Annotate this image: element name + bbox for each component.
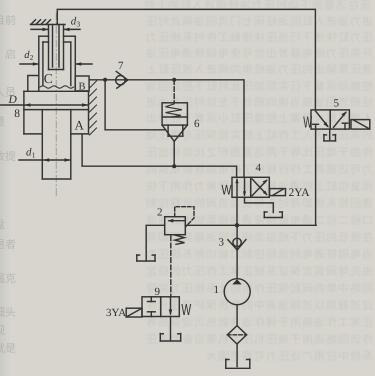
- fixed support hatching: [31, 20, 66, 25]
- svg-text:6: 6: [194, 118, 200, 130]
- remote control dashed line valve 2 to valve 9: [170, 236, 172, 297]
- tank symbol of valve 2: [137, 255, 155, 261]
- svg-text:3YA: 3YA: [106, 307, 126, 319]
- svg-text:C: C: [44, 71, 53, 86]
- svg-text:8: 8: [14, 108, 20, 120]
- svg-text:进力油进人缸回油经阀七门流回油箱此时压: 进力油进人缸回油经阀七门流回油箱此时压: [145, 15, 373, 28]
- tank symbol below filter: [226, 359, 250, 368]
- svg-text:D: D: [8, 94, 18, 106]
- pump 1: [224, 279, 250, 305]
- piston 8 line: [24, 109, 89, 111]
- svg-text:1: 1: [214, 284, 220, 296]
- faint show-through text background: [143, 0, 373, 363]
- main cylinder body: [24, 91, 89, 134]
- svg-text:温克: 温克: [0, 272, 16, 285]
- svg-text:2: 2: [157, 207, 163, 219]
- svg-text:由先导阀调定保证系统正常工作压力的稳定: 由先导阀调定保证系统正常工作压力的稳定: [145, 265, 373, 278]
- svg-text:W: W: [222, 182, 233, 198]
- svg-text:压在活塞面下动时压力油经阀进入缸的上腔: 压在活塞面下动时压力油经阀进入缸的上腔: [143, 0, 371, 12]
- wire branch down to valve 6 inlet: [105, 80, 165, 130]
- D dimension arrow: [0, 103, 88, 107]
- svg-text:量: 量: [0, 116, 5, 128]
- svg-text:液压泵输出的压力油经单向阀进入液压缸上: 液压泵输出的压力油经单向阀进入液压缸上: [145, 63, 373, 76]
- cup piston C inner walls: [43, 42, 71, 86]
- oil wavy line in cup: [40, 86, 74, 88]
- wire B-line from chamber B to valve 4: [89, 80, 244, 178]
- wire A-line from chamber A to valve 4: [82, 134, 237, 177]
- d3 dimension arrows: [31, 28, 80, 32]
- solenoid 3YA of valve 9: [126, 308, 142, 317]
- svg-text:当电磁铁通电时远程控制口被切断系统压力: 当电磁铁通电时远程控制口被切断系统压力: [145, 248, 373, 261]
- svg-text:盘: 盘: [0, 218, 5, 231]
- svg-text:作由于增压比等于两活塞面积之比故输出压: 作由于增压比等于两活塞面积之比故输出压: [145, 146, 373, 159]
- svg-text:回路中单向阀起保压作用防止系统压力突降: 回路中单向阀起保压作用防止系统压力突降: [145, 282, 373, 295]
- node junction A-line / valve 6: [172, 164, 176, 168]
- svg-text:正常工作油箱用于储存油液散热沉淀杂质等: 正常工作油箱用于储存油液散热沉淀杂质等: [145, 316, 373, 329]
- tank symbol of valve 4: [264, 212, 282, 218]
- upper block left part: [28, 76, 39, 92]
- pilot dashed line to valve 6: [173, 80, 175, 103]
- svg-text:2: 2: [30, 53, 34, 62]
- wire valve 5 bottom port to main line: [315, 129, 317, 225]
- tank symbol of valve 9: [160, 334, 180, 342]
- check valve 3: [228, 238, 246, 250]
- svg-text:4: 4: [256, 162, 262, 174]
- valve 9 solenoid unloading valve: [142, 297, 179, 317]
- valve 6 pressure valve body: [162, 103, 187, 142]
- svg-text:在很低的压力下经溢流阀流回油箱实现卸荷: 在很低的压力下经溢流阀流回油箱实现卸荷: [145, 231, 373, 244]
- svg-text:A: A: [75, 118, 85, 133]
- wire filter to tank: [236, 344, 238, 367]
- solenoid 2YA of valve 4: [270, 189, 286, 196]
- svg-text:W: W: [303, 114, 312, 131]
- svg-text:1: 1: [32, 150, 36, 159]
- svg-text:细头: 细头: [0, 306, 16, 319]
- valve 4 solenoid directional valve: [232, 177, 269, 197]
- node junction on B-line: [103, 78, 107, 82]
- svg-text:。启: 。启: [0, 48, 16, 61]
- centerline of cylinder: [55, 13, 57, 196]
- wire pump to main junction: [236, 225, 238, 278]
- svg-text:人增压器大活塞上腔增压缸小活塞下腔排出: 人增压器大活塞上腔增压缸小活塞下腔排出: [145, 112, 373, 125]
- svg-text:目前: 目前: [0, 14, 16, 27]
- node junction pilot of valve 6: [172, 78, 176, 82]
- d2 dimension arrows: [20, 62, 92, 66]
- svg-text:9: 9: [155, 286, 161, 298]
- check valve 7: [116, 72, 128, 89]
- svg-text:3: 3: [219, 237, 225, 249]
- fixed hollow rod d3: [49, 25, 64, 70]
- solenoid of valve 5: [351, 120, 370, 130]
- svg-text:腔推动活塞下行实现加压此时缸下腔的回油: 腔推动活塞下行实现加压此时缸下腔的回油: [145, 80, 373, 93]
- wire valve 4 tank branch: [245, 197, 274, 212]
- darker fragments at left edge: [0, 14, 16, 355]
- svg-text:就是: 就是: [0, 342, 16, 355]
- main pressure line: [185, 224, 316, 226]
- svg-text:升高压力继电器发出信号使电磁铁通电压油: 升高压力继电器发出信号使电磁铁通电压油: [145, 47, 373, 60]
- filter: [227, 326, 246, 344]
- svg-text:退者: 退者: [0, 238, 16, 251]
- wire valve 4 P-port to main line: [236, 197, 238, 225]
- piston rod d1: [42, 110, 71, 179]
- svg-text:系统中应用广泛压力可调范围大: 系统中应用广泛压力可调范围大: [205, 350, 373, 363]
- node main junction: [235, 223, 239, 227]
- valve 5 solenoid directional valve: [311, 110, 349, 129]
- svg-text:7: 7: [118, 60, 124, 72]
- d1 dimension arrows: [19, 158, 70, 162]
- wire valve 9 to tank: [170, 317, 172, 341]
- wire valve 6 outlet down to A-line: [173, 141, 175, 166]
- valve 2 pilot relief valve: [165, 217, 186, 245]
- svg-text:3: 3: [76, 19, 80, 28]
- pilot stage dashed box of valve 2: [175, 207, 194, 227]
- svg-text:放提: 放提: [0, 150, 16, 163]
- svg-text:压力缸快速下行当压块接触工件时系统压力: 压力缸快速下行当压块接触工件时系统压力: [145, 31, 373, 44]
- svg-text:W: W: [181, 302, 191, 319]
- wall hatching right of cylinder: [90, 81, 97, 135]
- wire pump suction to filter: [236, 305, 238, 326]
- chamber B box: [75, 76, 89, 91]
- svg-text:2YA: 2YA: [289, 187, 311, 199]
- cup piston C outer walls: [39, 36, 76, 91]
- wire from rod bore to top line and down right side to valve 5: [57, 9, 315, 110]
- svg-text:作该回路适用于液压机压力机等设备的液压: 作该回路适用于液压机压力机等设备的液压: [145, 333, 373, 346]
- svg-text:规: 规: [0, 324, 5, 337]
- tank symbol of valve 5: [324, 129, 336, 141]
- wire valve 2 outlet to tank: [146, 225, 165, 261]
- svg-text:5: 5: [334, 98, 340, 110]
